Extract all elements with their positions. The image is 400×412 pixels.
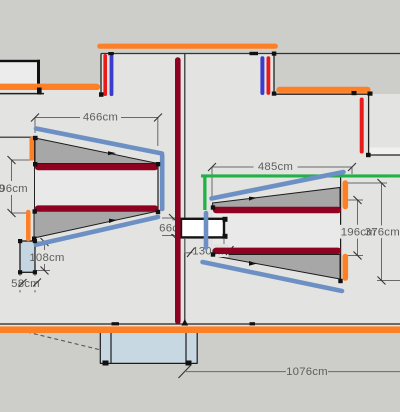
wall line left vertical: [34, 137, 36, 240]
dimension 196cm-right line: [357, 200, 359, 256]
junction dot room l tr: [156, 162, 160, 166]
dimension 108cm extension top: [36, 241, 50, 243]
dimension 196cm-left extension bottom: [12, 212, 29, 214]
wall line left top short: [0, 93, 44, 95]
dimension 1076cm line right: [328, 371, 400, 373]
junction arrow partition base: [182, 319, 189, 326]
wall line step interior: [274, 93, 370, 95]
dimension 376cm extension top: [344, 182, 387, 184]
wall line step jamb: [273, 54, 275, 95]
dimension 1076cm tick: [179, 366, 191, 379]
room left wedge bottom: [34, 211, 158, 238]
blue pipe pair2: [260, 58, 264, 93]
wall line left jamb: [100, 54, 102, 95]
dimension 66cm line: [172, 218, 174, 236]
cabinet corner dots: [18, 239, 22, 243]
svg-text:466cm: 466cm: [83, 112, 118, 124]
green wire vertical: [203, 177, 206, 210]
dimension 196cm-right label: [340, 225, 377, 239]
dimension 485cm extension left: [211, 167, 213, 197]
dimension 466cm extension right: [157, 118, 159, 147]
white fixture box center: [181, 219, 224, 238]
dimension 58cm extension left: [19, 273, 21, 293]
wall line bottom interior: [0, 323, 400, 325]
junction dot room l bl: [33, 209, 37, 213]
arrow mark right bottom: [249, 261, 257, 266]
orange stub left room top: [29, 139, 34, 159]
maroon beam right room top: [216, 207, 338, 213]
junction dot d: [272, 52, 277, 56]
dimension 466cm tick right: [154, 114, 162, 122]
dimension 485cm tick right: [348, 163, 356, 171]
junction dot room r tl: [211, 205, 215, 209]
wall line niche left: [368, 94, 370, 155]
dimension 466cm line: [35, 117, 158, 119]
svg-text:0: 0: [0, 183, 5, 195]
orange wall bar bottom: [0, 326, 400, 333]
fixture corner dot tr: [223, 217, 228, 222]
dimension 58cm tick right: [33, 279, 41, 287]
window box right border: [37, 60, 40, 95]
junction dot a: [99, 92, 104, 97]
dimension 196cm-left tick top: [8, 156, 16, 164]
green wire horizontal: [201, 174, 400, 177]
window box top border: [0, 60, 40, 62]
dimension 485cm tick left: [208, 163, 216, 171]
red pipe pair2: [266, 58, 270, 93]
dimension 130cm tick right: [226, 246, 234, 255]
table bottom fill: [100, 330, 197, 364]
blue rod center vertical: [204, 213, 209, 248]
red pipe right: [360, 100, 364, 152]
orange wall bar step: [280, 87, 368, 93]
outer ground top: [0, 0, 400, 84]
wall line top interior: [101, 53, 400, 55]
dimension 196cm-left tick bottom: [8, 209, 16, 217]
dimension 376cm line upper: [381, 183, 383, 226]
dimension 66cm tick bottom: [169, 232, 177, 240]
dimension 466cm label: [80, 110, 121, 124]
dimension 196cm-right extension top: [346, 199, 363, 201]
junction dot f: [352, 91, 357, 95]
table border left outer: [99, 330, 101, 364]
blue diagonal right bottom: [203, 262, 343, 291]
dimension 376cm extension bottom: [377, 280, 400, 282]
dimension 58cm extension right: [34, 273, 36, 293]
junction dot e: [272, 92, 277, 96]
outer pocket top right: [274, 54, 400, 95]
dimension 66cm label: [158, 221, 189, 235]
wall line left horizontal: [0, 136, 35, 138]
niche highlight strip: [369, 148, 400, 156]
dimension 376cm tick top: [378, 179, 386, 187]
dimension 196cm-left extension top: [12, 159, 31, 161]
junction mark bottom wall 1: [112, 322, 120, 325]
blue rod left room vertical: [160, 156, 165, 210]
room right interior: [213, 207, 341, 255]
svg-text:1076cm: 1076cm: [286, 366, 328, 378]
junction dot g: [368, 92, 373, 96]
dimension 466cm tick left: [31, 114, 39, 122]
room left right edge: [157, 164, 159, 213]
dimension 108cm label: [36, 250, 65, 264]
dimension 196cm-left line: [11, 160, 13, 213]
maroon beam right room bottom: [216, 248, 338, 254]
room left wedge top: [35, 138, 158, 164]
table border right outer: [196, 330, 198, 364]
maroon beam left room bottom: [38, 205, 155, 211]
table leg dot left: [103, 361, 109, 366]
room right wedge bottom: [213, 255, 341, 280]
dimension 196cm-right extension bottom: [346, 255, 363, 257]
niche interior top right: [369, 94, 400, 155]
dimension 130cm label: [193, 244, 229, 257]
maroon beam left room top: [38, 164, 155, 170]
blue diagonal left top: [36, 129, 162, 154]
dimension 485cm extension right: [351, 167, 353, 174]
junction dot wedge bl: [32, 237, 36, 241]
room right wedge top: [213, 188, 341, 208]
dimension 108cm extension bottom: [36, 270, 50, 272]
orange stub right room bottom: [342, 257, 348, 279]
wall line niche bottom: [369, 154, 400, 156]
dimension 58cm tick left: [19, 279, 27, 287]
orange stub left room bottom: [26, 212, 31, 239]
junction dot room r br: [338, 279, 342, 283]
junction dot room l tl: [33, 162, 37, 166]
dimension 130cm tick left: [187, 248, 195, 257]
dimension 466cm extension left: [34, 118, 36, 133]
red pipe pair1: [103, 56, 107, 94]
junction dot wedge tl: [33, 136, 38, 140]
window box top-left: [0, 60, 40, 84]
dimension 130cm extension left: [184, 238, 186, 253]
maroon post center: [175, 60, 181, 321]
junction dot h: [366, 153, 371, 157]
dimension 130cm line: [184, 251, 231, 253]
dimension 485cm label: [254, 160, 298, 174]
junction dot room r bl: [211, 252, 215, 256]
junction mark c: [250, 52, 259, 55]
table leg dot right: [186, 361, 192, 366]
blue pipe pair1: [110, 57, 114, 94]
svg-text:108cm: 108cm: [29, 252, 64, 264]
small cabinet rect left: [20, 241, 35, 272]
orange stub right room top: [342, 183, 348, 207]
dimension 58cm label: [12, 276, 41, 290]
blue diagonal right top: [212, 172, 344, 199]
outer ground bottom: [0, 333, 400, 412]
dimension 196cm-left label: [0, 181, 28, 195]
dimension 108cm line: [44, 242, 46, 271]
junction dot bottom wall 2: [250, 322, 256, 325]
dimension 58cm line: [20, 283, 35, 285]
dimension 1076cm line left: [186, 371, 286, 373]
fixture corner dot br: [223, 234, 228, 239]
table border bottom: [100, 362, 198, 364]
dimension 485cm line: [212, 166, 352, 168]
table border left inner: [110, 330, 112, 364]
svg-text:376cm: 376cm: [365, 227, 400, 239]
dimension 376cm line lower: [381, 238, 383, 281]
room left interior: [35, 164, 158, 212]
dimension 66cm tick top: [169, 214, 177, 222]
blue diagonal left bottom: [36, 217, 158, 245]
dimension 130cm extension right: [223, 238, 225, 250]
dimension 196cm-right tick top: [354, 196, 362, 204]
dimension 108cm tick bottom: [41, 267, 49, 275]
dimension 376cm tick bottom: [378, 277, 386, 285]
orange wall bar left: [0, 84, 97, 90]
wall line center partition: [184, 54, 186, 325]
table border right inner: [185, 330, 187, 364]
dimension 66cm extension bottom: [162, 235, 178, 237]
arrow mark left top: [108, 151, 116, 155]
dashed guide line: [27, 332, 101, 350]
dimension 66cm extension top: [162, 217, 178, 219]
room right edge: [340, 174, 342, 281]
svg-text:485cm: 485cm: [258, 161, 293, 173]
orange wall bar top: [100, 44, 275, 49]
dimension 108cm tick top: [41, 238, 49, 246]
junction dot box corner: [37, 88, 42, 95]
arrow mark left bottom: [109, 219, 117, 223]
arrow mark right top: [249, 197, 257, 201]
junction mark b: [108, 52, 114, 55]
dimension 196cm-right tick bottom: [354, 252, 362, 260]
junction dot room l br: [156, 210, 160, 214]
